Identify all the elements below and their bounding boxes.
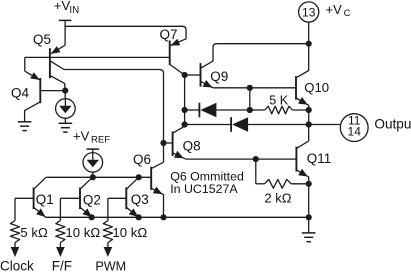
svg-text:F/F: F/F [52, 259, 72, 272]
svg-text:10 kΩ: 10 kΩ [65, 225, 100, 240]
svg-text:Q7: Q7 [160, 27, 178, 42]
svg-text:Q3: Q3 [131, 192, 149, 207]
svg-text:Q2: Q2 [83, 193, 101, 208]
svg-text:Q8: Q8 [183, 139, 201, 154]
svg-text:2 kΩ: 2 kΩ [264, 191, 291, 206]
svg-text:C: C [344, 8, 351, 19]
svg-text:Q10: Q10 [304, 80, 329, 95]
svg-text:Q11: Q11 [307, 151, 332, 166]
svg-text:Q9: Q9 [210, 69, 228, 84]
svg-text:Clock: Clock [0, 259, 34, 272]
svg-text:IN: IN [69, 5, 79, 16]
svg-text:14: 14 [348, 125, 362, 139]
svg-text:+V: +V [326, 2, 343, 17]
svg-text:13: 13 [302, 5, 316, 19]
svg-text:PWM: PWM [95, 259, 126, 272]
svg-text:Q5: Q5 [33, 32, 51, 47]
svg-text:Q4: Q4 [11, 85, 30, 100]
svg-text:REF: REF [91, 135, 110, 146]
svg-text:5 K: 5 K [269, 94, 289, 108]
svg-text:Q6: Q6 [133, 152, 151, 167]
svg-text:+V: +V [73, 128, 90, 143]
svg-text:Q1: Q1 [36, 192, 54, 207]
svg-text:In UC1527A: In UC1527A [170, 182, 238, 196]
svg-text:+V: +V [54, 0, 71, 13]
svg-text:Output: Output [374, 116, 411, 131]
svg-text:5 kΩ: 5 kΩ [20, 225, 48, 240]
svg-text:10 kΩ: 10 kΩ [112, 225, 147, 240]
